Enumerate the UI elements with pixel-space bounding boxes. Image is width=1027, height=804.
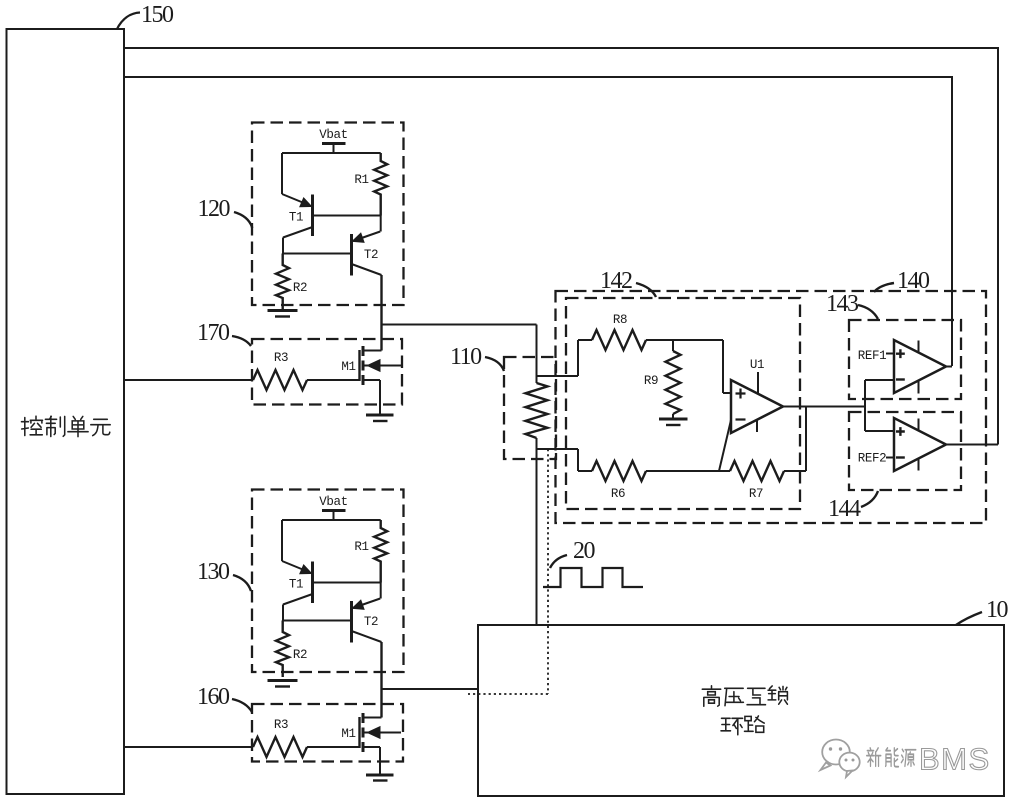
resistor R2 (box 130): [276, 621, 289, 678]
svg-text:160: 160: [197, 684, 230, 710]
wire R1 node down to T2 emitter (box 130): [380, 583, 382, 599]
resistor R8 (box 142): [592, 330, 646, 350]
dashed box 130: [252, 490, 404, 673]
svg-text:R1: R1: [354, 173, 368, 187]
ground under R2 (box 120): [268, 311, 298, 317]
op-amp U1 minus sign: [736, 418, 746, 420]
svg-text:R8: R8: [613, 313, 627, 327]
wire REF2 reference input stub: [886, 457, 894, 459]
wire: control unit to REF1 output: [124, 77, 952, 366]
leader for 170: [232, 336, 251, 346]
svg-text:142: 142: [600, 268, 632, 294]
dashed box 160: [252, 704, 403, 762]
wire T1 base to R1 node (box 130): [313, 582, 381, 584]
svg-text:144: 144: [828, 496, 861, 522]
dashed box 140 outer: [556, 291, 987, 523]
transistor T2 (box 120): [352, 232, 382, 276]
leader for 120: [234, 212, 252, 228]
PWM square wave symbol 20: [543, 568, 643, 587]
comparator REF1 triangle (box 143): [894, 340, 946, 393]
wire R9 branch: [672, 340, 674, 351]
box 10 text 高压互锁 环路: [702, 686, 787, 735]
wire R3 to M1 gate (box 160): [307, 746, 360, 748]
control unit rectangle 150: [7, 29, 125, 794]
WATERMARK: [821, 740, 860, 778]
wire REF2 output: [946, 444, 998, 446]
svg-text:130: 130: [197, 559, 230, 585]
resistor R1 (box 130): [374, 520, 387, 583]
svg-text:120: 120: [198, 196, 231, 222]
svg-text:R3: R3: [274, 718, 288, 732]
svg-text:20: 20: [573, 538, 596, 564]
svg-text:R1: R1: [354, 540, 368, 554]
svg-text:Vbat: Vbat: [319, 495, 347, 509]
MAIN-SCHEMATIC drawn below: [7, 29, 125, 794]
ground under M1 (box 160): [366, 775, 394, 781]
wire resistor bottom down to interlock box: [536, 438, 538, 625]
leader for 20: [550, 555, 567, 568]
wire T1 emitter drop (box 120): [281, 153, 283, 194]
dashed box 142: [566, 298, 800, 509]
svg-text:170: 170: [197, 320, 230, 346]
wire T1 base to R1 node (box 120): [313, 215, 381, 217]
mosfet M1 (box 160): [360, 713, 402, 775]
svg-text:150: 150: [141, 2, 174, 28]
wire T1 emitter drop (box 130): [281, 520, 283, 561]
dashed box 120: [252, 123, 404, 306]
leader for 150: [117, 13, 140, 30]
wire branch to R8 input: [537, 340, 593, 376]
wire control unit to R3 (box 160): [124, 746, 253, 748]
resistor R3 (box 170): [253, 370, 307, 390]
leader for 160: [232, 699, 252, 712]
transistor T1 (box 120): [282, 194, 313, 238]
comparator REF1 plus sign: [896, 349, 905, 358]
svg-text:R9: R9: [644, 374, 658, 388]
control unit text 控制单元: [22, 416, 111, 436]
leader for 142: [636, 283, 656, 297]
wire U1 inverting input slant: [719, 420, 731, 471]
svg-text:T1: T1: [289, 578, 303, 592]
wire lower driver output to interlock loop box: [382, 688, 479, 690]
wire T1 collector down (box 130): [282, 605, 284, 621]
op-amp U1 plus sign: [736, 389, 746, 399]
svg-text:REF1: REF1: [858, 349, 886, 363]
wire R9 to ground: [672, 414, 674, 419]
leader for 144: [861, 491, 878, 507]
wire into sampling resistor (box 110): [536, 325, 538, 384]
wire comparator input bus: [864, 380, 866, 431]
watermark bubble eyes: [829, 747, 832, 750]
watermark text 新能源: [867, 748, 916, 767]
wire top rail (box 130): [282, 519, 381, 521]
transistor T1 (box 130): [282, 561, 313, 605]
resistor R1 (box 120): [374, 153, 387, 216]
resistor R2 (box 120): [276, 254, 289, 311]
svg-text:T2: T2: [364, 248, 378, 262]
wire R6 to feedback node: [646, 470, 730, 472]
watermark icon chat bubble small: [839, 753, 859, 772]
ground under M1 (box 170): [366, 415, 394, 421]
svg-text:110: 110: [450, 344, 482, 370]
comparator REF1 minus sign: [896, 378, 905, 380]
svg-text:Vbat: Vbat: [319, 128, 347, 142]
op-amp U1 power pins: [757, 372, 758, 432]
comparator REF2 minus sign: [896, 456, 905, 458]
resistor R7 (box 142): [730, 461, 784, 481]
leader for 110: [485, 357, 504, 371]
comparator REF2 plus sign: [896, 427, 905, 436]
dashed box 110: [504, 357, 556, 459]
node dotted feedback line: [468, 449, 548, 694]
leader for 143: [858, 305, 878, 319]
wire U1 output: [783, 406, 865, 408]
wire T2 base line (box 120): [283, 253, 352, 255]
dashed box 144: [849, 412, 961, 490]
resistor R6 (box 142): [592, 461, 646, 481]
wire REF1 reference input stub: [886, 353, 894, 355]
wire control unit to R3 (box 170): [124, 379, 253, 381]
svg-text:R3: R3: [274, 351, 288, 365]
dashed box 143: [849, 320, 961, 399]
wire driver output to sampling resistor 110: [382, 324, 537, 326]
svg-text:R7: R7: [749, 487, 763, 501]
wire to REF2 non-inverting input: [865, 430, 894, 432]
comparator REF2 triangle (box 144): [894, 418, 946, 471]
Vbat supply symbol (box 120): [322, 144, 346, 154]
wire R8 to U1 non-inverting input: [646, 340, 731, 393]
Vbat supply symbol (box 130): [322, 511, 346, 521]
leader for 140: [874, 283, 894, 292]
svg-text:T1: T1: [289, 211, 303, 225]
op-amp U1 triangle: [731, 380, 783, 433]
svg-text:M1: M1: [341, 360, 355, 374]
wire REF1 output: [946, 366, 952, 368]
high voltage interlock loop box 10: [478, 625, 1004, 796]
wire R1 node down to T2 emitter (box 120): [380, 216, 382, 232]
wire to REF1 inverting input: [865, 379, 894, 381]
resistor R3 (box 160): [253, 737, 307, 757]
ground under R2 (box 130): [268, 681, 298, 687]
wire driver output vertical T2 to M1 drain: [380, 275, 382, 351]
svg-text:R2: R2: [293, 281, 307, 295]
svg-text:140: 140: [897, 268, 930, 294]
wire T1 collector down (box 120): [282, 238, 284, 254]
dashed box 170: [252, 339, 402, 405]
wire branch to R6 input: [537, 449, 593, 471]
resistor R9 (box 142): [666, 351, 681, 414]
watermark icon chat bubble large: [822, 740, 850, 765]
wire driver output vertical T2 to M1 drain (lower): [380, 642, 382, 718]
svg-text:U1: U1: [750, 358, 764, 372]
svg-text:10: 10: [986, 597, 1009, 623]
svg-text:R2: R2: [293, 648, 307, 662]
wire top rail (box 120): [282, 152, 381, 154]
sampling resistor (box 110): [526, 383, 548, 438]
wire T2 base line (box 130): [283, 620, 352, 622]
leader for 130: [233, 575, 251, 591]
svg-text:143: 143: [826, 291, 859, 317]
svg-text:M1: M1: [341, 727, 355, 741]
svg-text:T2: T2: [364, 615, 378, 629]
ground under R9: [659, 419, 688, 425]
mosfet M1 (box 170): [360, 346, 402, 415]
svg-text:R6: R6: [611, 487, 625, 501]
wire: control unit to REF2 output (top): [124, 48, 998, 445]
comparator REF1 power pins: [918, 341, 920, 394]
svg-text:REF2: REF2: [858, 452, 886, 466]
wire R3 to M1 gate (box 170): [307, 379, 360, 381]
leader for 10: [956, 612, 982, 625]
transistor T2 (box 130): [352, 599, 382, 643]
comparator REF2 power pins: [918, 419, 920, 471]
svg-text:BMS: BMS: [919, 742, 991, 777]
wire R7 to output node: [784, 407, 806, 472]
